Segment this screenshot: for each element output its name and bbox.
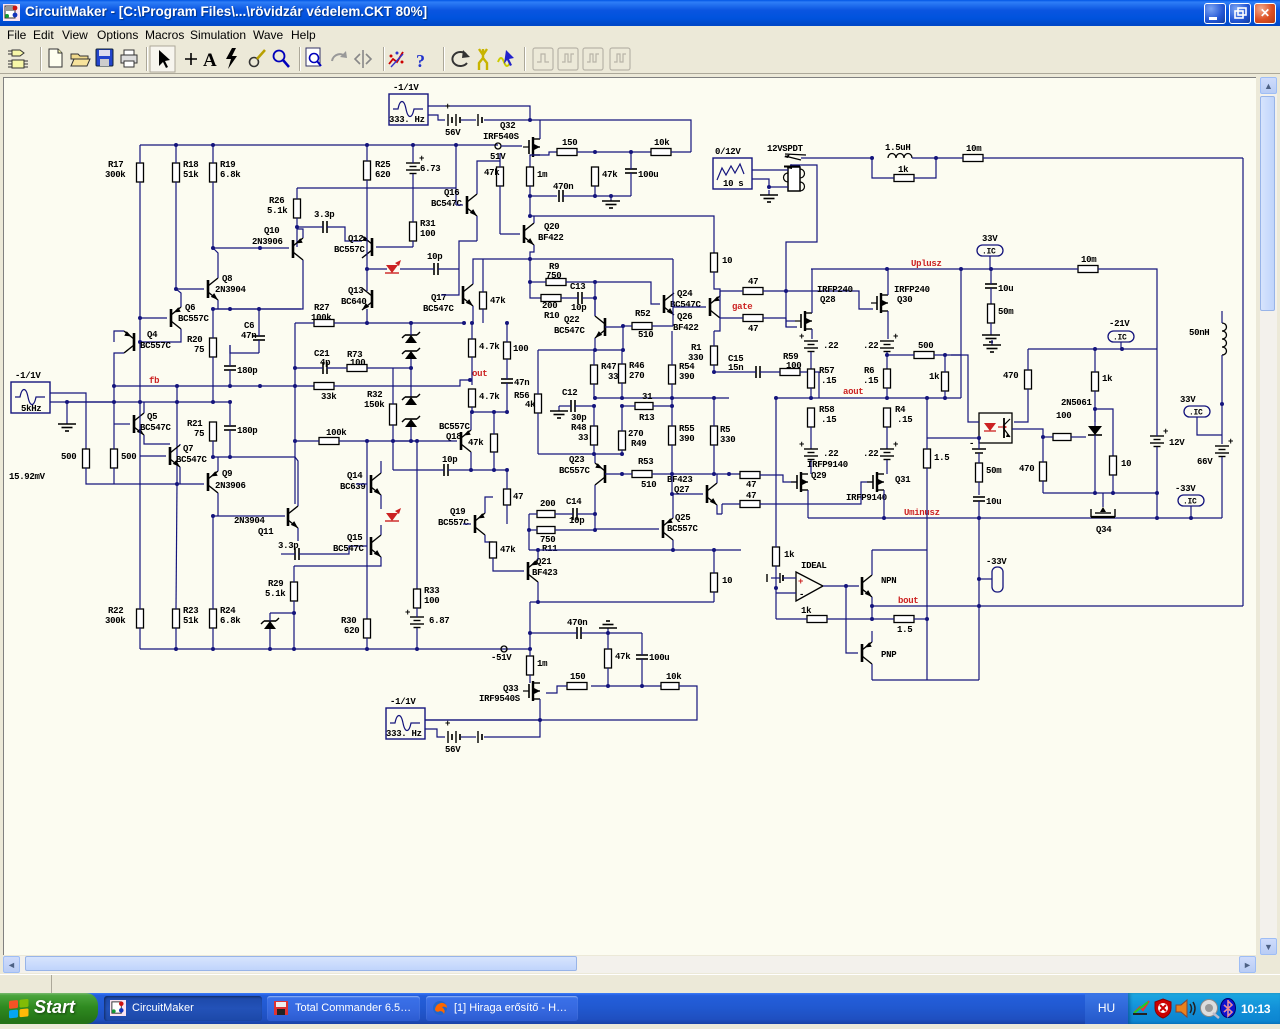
wire 10thy bot <box>1112 475 1114 493</box>
wire opamp plus <box>783 577 796 579</box>
wire R55 top <box>671 398 673 426</box>
transistor Q16 BC547C <box>431 188 477 216</box>
wire R52 right <box>652 325 673 327</box>
wire Q4 emitter <box>114 331 124 342</box>
node rail349 b <box>621 348 625 352</box>
node Q10 base joint <box>211 246 215 250</box>
wire x960 drop <box>960 269 962 398</box>
svg-text:fb: fb <box>149 376 159 386</box>
wire R27 left <box>295 322 314 324</box>
transistor Q15 BC547C <box>333 533 381 557</box>
svg-text:Q14: Q14 <box>347 471 363 481</box>
resistor R53 510 <box>632 457 656 490</box>
diode zener D lower1 <box>402 394 420 405</box>
svg-text:IRFP9140: IRFP9140 <box>846 493 887 503</box>
resistor 500 right <box>111 449 137 468</box>
node fb b <box>175 384 179 388</box>
wire 10pu right <box>438 268 459 270</box>
wire Q18 col down <box>470 452 472 470</box>
svg-text:R32: R32 <box>367 390 382 400</box>
svg-text:+: + <box>799 440 804 450</box>
wire Q28 drain <box>811 269 813 313</box>
svg-text:R27: R27 <box>314 303 329 313</box>
wire rail308 ext <box>213 308 301 310</box>
toolbar cursor pressed <box>150 46 175 72</box>
ground C12 <box>550 406 568 418</box>
node 33V IC b <box>1184 406 1210 418</box>
wire R59 right <box>800 372 819 398</box>
wire R31 bottom <box>412 241 414 247</box>
svg-text:66V: 66V <box>1197 457 1213 467</box>
wire 47kb top <box>482 259 484 292</box>
wire Q4 collector <box>114 353 124 386</box>
svg-text:.22: .22 <box>863 341 878 351</box>
capacitor C6 47n <box>241 321 265 341</box>
node 470n a <box>528 194 532 198</box>
wire 51V to Q32 <box>501 145 522 147</box>
wire 1k sense bot <box>944 391 946 398</box>
wire R23 bottom <box>175 628 177 649</box>
label -21V <box>1109 319 1130 329</box>
svg-text:-1/1V: -1/1V <box>393 83 419 93</box>
capacitor 180p lower <box>224 426 257 436</box>
svg-text:R5: R5 <box>720 425 730 435</box>
resistor 100 mid <box>504 342 529 359</box>
node LED row tap <box>365 267 369 271</box>
node fb a <box>112 384 116 388</box>
resistor 47k top <box>592 167 619 186</box>
wire x594 drop <box>594 282 596 316</box>
wire x528 seg <box>528 514 530 550</box>
wire 47g2 left <box>722 503 740 505</box>
resistor R27 <box>311 303 334 327</box>
wire R29 bottom <box>293 601 295 649</box>
wire Q32 source left <box>530 155 540 167</box>
svg-text:+: + <box>405 608 410 618</box>
wire R5 top <box>713 398 715 426</box>
svg-text:470n: 470n <box>567 618 587 628</box>
node rail258 a <box>528 257 532 261</box>
svg-text:Q31: Q31 <box>895 475 911 485</box>
node gate drive tap <box>784 289 788 293</box>
wire Q9 collector <box>217 493 219 516</box>
wire 10ma right <box>983 157 1243 159</box>
transistor Q4 BC557C <box>124 330 172 353</box>
wire 56V to Q32 <box>484 119 530 121</box>
wire src upper out <box>50 393 86 449</box>
wire Q26 emit <box>714 318 720 331</box>
capacitor 470n top <box>553 182 573 202</box>
wire Q32 source <box>540 152 557 155</box>
capacitor 47n mid <box>501 378 529 388</box>
wire R46 bot <box>621 383 623 398</box>
wire fb rail <box>114 385 314 387</box>
wire src2 batt out <box>428 115 445 120</box>
resistor 10 buf <box>711 573 733 592</box>
wire 50nH top <box>1221 311 1223 323</box>
resistor R26 <box>267 196 301 218</box>
transistor Q27 BF423 <box>667 475 717 505</box>
wire R26 to Q16 base <box>297 187 456 189</box>
wire Q25 emit <box>672 540 674 550</box>
wire opto top left <box>951 355 979 422</box>
node Q27 base <box>670 492 674 496</box>
wire R32 top <box>392 368 394 404</box>
resistor 1m bot <box>527 656 549 675</box>
svg-text:50m: 50m <box>998 307 1014 317</box>
node fb d <box>258 384 262 388</box>
wire 1kbuf right <box>827 618 872 620</box>
transistor Q10 2N3906 <box>252 226 303 260</box>
wire R10 lead <box>530 282 541 298</box>
resistor 1k thy <box>1092 372 1114 391</box>
svg-text:BC547C: BC547C <box>670 300 702 310</box>
wire rail258 <box>530 258 673 260</box>
svg-text:100: 100 <box>420 229 435 239</box>
svg-text:2N3904: 2N3904 <box>234 516 266 526</box>
svg-text:50m: 50m <box>986 466 1002 476</box>
wire 100thy right <box>1071 436 1086 438</box>
svg-text:390: 390 <box>679 372 694 382</box>
toolbar <box>0 44 1280 74</box>
node 51V circle <box>495 143 501 149</box>
battery 56V top <box>445 102 461 138</box>
node coil right <box>934 156 938 160</box>
svg-text:R57: R57 <box>819 366 834 376</box>
resistor R54 390 <box>669 362 696 384</box>
wire 470a bot <box>1014 389 1028 422</box>
resistor 1k par <box>894 165 914 182</box>
source V4 -1/1V 333Hz <box>386 697 425 739</box>
wire rail685 <box>591 685 661 687</box>
wire 470nb left <box>530 632 577 634</box>
wire opto out right <box>1012 429 1043 437</box>
wire 47d left <box>720 290 743 292</box>
node fb e <box>293 384 297 388</box>
resistor 50m b <box>976 463 1003 482</box>
relay 12VSPDT <box>784 154 807 191</box>
node rail453 b <box>620 452 624 456</box>
wire coil right <box>912 157 936 159</box>
toolbar new <box>49 49 62 67</box>
capacitor 470n bot <box>567 618 587 639</box>
wire rail515 <box>213 515 285 517</box>
wire Q19 base <box>463 523 471 525</box>
wire R19 top <box>212 145 214 163</box>
wire Q22 base r <box>605 326 623 328</box>
svg-text:47k: 47k <box>468 438 484 448</box>
node R53 c <box>727 472 731 476</box>
wire .22b to R6 <box>886 355 888 369</box>
node rail549 c <box>536 548 540 552</box>
wire Q11 collector <box>295 457 298 506</box>
svg-text:bout: bout <box>898 596 918 606</box>
svg-text:Q24: Q24 <box>677 289 693 299</box>
transistor Q6 BC557C <box>171 303 210 329</box>
node rail411 a <box>470 410 474 414</box>
wire thy to 10 <box>1095 409 1113 456</box>
svg-text:620: 620 <box>375 170 390 180</box>
window title bar <box>0 0 1280 26</box>
node rail215 a <box>528 214 532 218</box>
wire 50nH bot <box>1221 355 1223 404</box>
wire 10ma left <box>936 157 963 159</box>
wire Q29 drain <box>810 466 812 474</box>
svg-text:6.73: 6.73 <box>420 164 440 174</box>
svg-text:+: + <box>799 332 804 342</box>
wire Q28 gate <box>786 320 795 322</box>
svg-text:Q33: Q33 <box>503 684 518 694</box>
node rail401 c <box>175 400 179 404</box>
svg-text:10m: 10m <box>1081 255 1097 265</box>
wire R26 top <box>296 188 298 199</box>
svg-text:R26: R26 <box>269 196 284 206</box>
wire 150a right <box>577 151 651 153</box>
wire x986 seg <box>978 606 980 680</box>
wire thy anode <box>1094 409 1096 417</box>
label IRF540S <box>483 132 520 142</box>
wire Q20 emit <box>530 245 534 282</box>
svg-text:C14: C14 <box>566 497 582 507</box>
svg-text:1.5: 1.5 <box>897 625 912 635</box>
wire 150b left <box>546 686 567 693</box>
wire x294 column <box>294 323 296 504</box>
svg-text:BC557C: BC557C <box>140 341 172 351</box>
status bar <box>0 974 1280 993</box>
wire R25 bottom <box>366 180 368 239</box>
wire 50ma bot <box>990 323 992 330</box>
svg-text:10p: 10p <box>427 252 442 262</box>
resistor R1 330 <box>688 343 718 365</box>
node upl b <box>959 267 963 271</box>
resistor R22 <box>105 606 144 628</box>
wire R9 to Q24 <box>595 282 660 304</box>
wire 33vb stem <box>1197 417 1222 435</box>
wire rail469 <box>471 469 507 471</box>
wire src4 out <box>425 719 540 721</box>
wire 47g2 right <box>760 482 873 504</box>
wire 10mb left <box>991 268 1078 270</box>
capacitor C13 10p <box>570 282 586 313</box>
transistor Q20 BF422 <box>524 222 564 245</box>
wire C12 left <box>559 405 571 407</box>
svg-text:IDEAL: IDEAL <box>801 561 827 571</box>
battery small cap <box>969 439 986 453</box>
resistor 750 R11 <box>537 527 558 555</box>
wire Q27 base <box>672 493 703 495</box>
resistor 1.5 v <box>924 449 950 468</box>
svg-text:BF422: BF422 <box>538 233 564 243</box>
svg-text:BC557C: BC557C <box>334 245 366 255</box>
svg-text:333. Hz: 333. Hz <box>386 729 422 739</box>
node rail348 b <box>1120 347 1124 351</box>
wire 47kb bottom <box>482 309 484 323</box>
svg-text:150k: 150k <box>364 400 385 410</box>
thyristor 2N5061 <box>1088 417 1102 435</box>
svg-text:1k: 1k <box>898 165 909 175</box>
toolbar mirror <box>355 50 371 68</box>
svg-text:2N3906: 2N3906 <box>215 481 246 491</box>
svg-text:470: 470 <box>1019 464 1034 474</box>
svg-text:270: 270 <box>628 429 643 439</box>
svg-text:33: 33 <box>578 433 588 443</box>
svg-text:51k: 51k <box>183 616 199 626</box>
wire 47d right <box>763 291 873 309</box>
mosfet Q33 IRF9540S <box>523 681 540 701</box>
svg-text:Q9: Q9 <box>222 469 232 479</box>
wire R52 left <box>623 325 632 327</box>
wire 100u top lead <box>630 152 632 169</box>
svg-text:10: 10 <box>1121 459 1131 469</box>
taskbar <box>0 993 1280 1024</box>
inductor 1.5uH <box>885 143 912 158</box>
svg-text:5.1k: 5.1k <box>267 206 288 216</box>
svg-text:10p: 10p <box>569 516 584 526</box>
resistor 47k bot <box>605 649 632 668</box>
node R52 left <box>621 324 625 328</box>
svg-text:.15: .15 <box>821 415 836 425</box>
wire R5 bot <box>713 445 715 474</box>
svg-text:Q4: Q4 <box>147 330 158 340</box>
svg-text:Q34: Q34 <box>1096 525 1112 535</box>
svg-text:BC547C: BC547C <box>423 304 455 314</box>
node 470n b <box>593 194 597 198</box>
svg-text:.15: .15 <box>821 376 836 386</box>
resistor R29 <box>265 579 298 601</box>
resistor 470 a <box>1003 370 1032 389</box>
node bout <box>870 604 874 608</box>
node junction 6.73 top <box>411 143 415 147</box>
wire R48 bot <box>593 445 595 454</box>
wire R29 top <box>293 566 295 582</box>
label Uplusz net <box>911 259 942 269</box>
svg-text:R30: R30 <box>341 616 356 626</box>
wire 31 left <box>622 405 635 407</box>
wire x455 drop <box>455 145 457 205</box>
wire rail401 <box>67 401 230 403</box>
label C15 <box>728 354 743 364</box>
resistor R31 100 <box>410 219 437 241</box>
node gnd195 <box>609 194 613 198</box>
node R9 right <box>593 280 597 284</box>
wire R24 bottom <box>212 628 214 649</box>
wire 56Vb right <box>484 720 540 737</box>
wire 10kb right <box>425 686 697 720</box>
wire C15 left <box>714 371 756 373</box>
wire Q9 base <box>177 483 204 485</box>
wire 1.5buf right <box>914 618 927 620</box>
wire R18 bottom <box>175 182 177 289</box>
wire R19 bottom <box>212 182 214 248</box>
node opamp in <box>774 586 778 590</box>
toolbar lightning <box>226 48 237 69</box>
wire right edge drop <box>1242 158 1244 606</box>
node rail517 b <box>1155 516 1159 520</box>
wire 66V top <box>1221 404 1223 444</box>
wire Q34 gate <box>1102 493 1104 500</box>
source V2 -1/1V 333Hz <box>389 83 428 125</box>
label 51V <box>490 152 506 162</box>
toolbar plus <box>185 53 197 65</box>
svg-text:100: 100 <box>350 358 365 368</box>
wire 100k left <box>295 440 319 442</box>
wire aout rail <box>776 397 961 399</box>
node 100k b <box>409 439 413 443</box>
resistor 10 thy <box>1110 456 1132 475</box>
wire Q14 base <box>356 483 367 485</box>
transistor Q13 BC640 <box>341 286 372 310</box>
transistor Q21 BF423 <box>528 557 558 582</box>
capacitor 100u bot <box>636 653 669 663</box>
svg-text:R47: R47 <box>601 362 616 372</box>
wire 47d2 left <box>720 317 743 319</box>
wire 500 left lead <box>887 354 914 356</box>
node opamp out <box>844 584 848 588</box>
wire 6.73 top <box>412 145 414 163</box>
wire 4.7kb bot <box>471 407 473 412</box>
svg-text:510: 510 <box>641 480 656 490</box>
svg-text:0/12V: 0/12V <box>715 147 741 157</box>
wire 6.73 bottom <box>412 174 414 185</box>
wire Q8 base <box>176 288 204 290</box>
node rail648 b <box>211 647 215 651</box>
transistor Q7 BC547C <box>170 444 208 467</box>
wire Q12 col <box>366 239 368 259</box>
svg-text:Uminusz: Uminusz <box>904 508 940 518</box>
resistor R59 100 <box>780 352 801 376</box>
capacitor C15 15n <box>756 366 760 378</box>
svg-text:75: 75 <box>194 345 204 355</box>
wire Q6 collector <box>140 329 181 342</box>
wire 10buf bot <box>713 592 715 602</box>
svg-text:R48: R48 <box>571 423 586 433</box>
resistor R48 33 <box>571 423 598 445</box>
svg-text:500: 500 <box>918 341 933 351</box>
svg-text:.15: .15 <box>863 376 878 386</box>
wire 180p1 top <box>229 345 231 366</box>
wire R22 top <box>139 456 141 609</box>
svg-text:10u: 10u <box>998 284 1013 294</box>
node rail397 d <box>712 396 716 400</box>
wire Q10 base rail <box>213 247 289 249</box>
wire 470nb right <box>581 632 608 634</box>
resistor R18 <box>173 160 200 182</box>
node 31 left <box>620 404 624 408</box>
label 5kHz note <box>0 0 2 2</box>
resistor 1.5 buf <box>894 616 914 636</box>
wire PNP emit <box>871 664 873 680</box>
svg-text:33V: 33V <box>982 234 998 244</box>
label Q33 <box>503 684 518 694</box>
svg-text:IRFP9140: IRFP9140 <box>807 460 848 470</box>
wire 1.5v bot <box>926 468 928 550</box>
svg-text:100: 100 <box>786 361 801 371</box>
wire 180p1 bottom <box>229 370 231 386</box>
wire R24 top <box>212 516 214 609</box>
resistor R5 330 <box>711 425 736 445</box>
node rail469 c <box>505 468 509 472</box>
wire rail215 <box>530 216 714 253</box>
svg-text:BC547C: BC547C <box>431 199 463 209</box>
svg-text:Q20: Q20 <box>544 222 559 232</box>
node x259 tap <box>258 246 262 250</box>
svg-text:2N5061: 2N5061 <box>1061 398 1093 408</box>
wire Q11 emitter <box>297 528 299 541</box>
wire relay in1 <box>752 169 788 171</box>
svg-text:10p: 10p <box>442 455 457 465</box>
wire 200b-C14 <box>555 513 573 515</box>
wire V+ top rail <box>140 144 498 146</box>
